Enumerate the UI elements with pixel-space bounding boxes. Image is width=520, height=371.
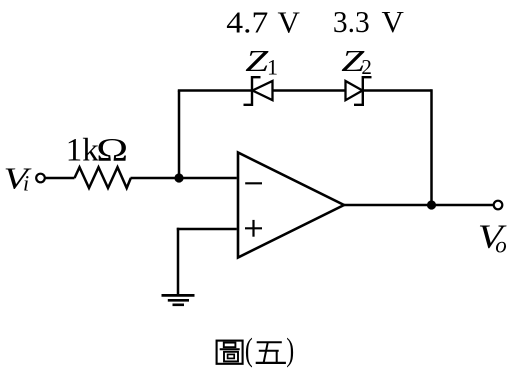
svg-text:): ) [286, 332, 294, 369]
svg-text:i: i [23, 171, 29, 196]
svg-text:(: ( [245, 332, 253, 369]
svg-text:1k: 1k [66, 133, 100, 169]
svg-text:4.7: 4.7 [226, 5, 268, 40]
svg-text:Z: Z [245, 44, 269, 78]
svg-text:V: V [278, 4, 301, 39]
svg-text:o: o [495, 232, 507, 257]
svg-text:Ω: Ω [96, 132, 128, 168]
svg-text:V: V [382, 4, 405, 39]
svg-text:3.3: 3.3 [333, 4, 370, 39]
svg-text:1: 1 [267, 55, 278, 80]
svg-text:2: 2 [361, 55, 372, 79]
